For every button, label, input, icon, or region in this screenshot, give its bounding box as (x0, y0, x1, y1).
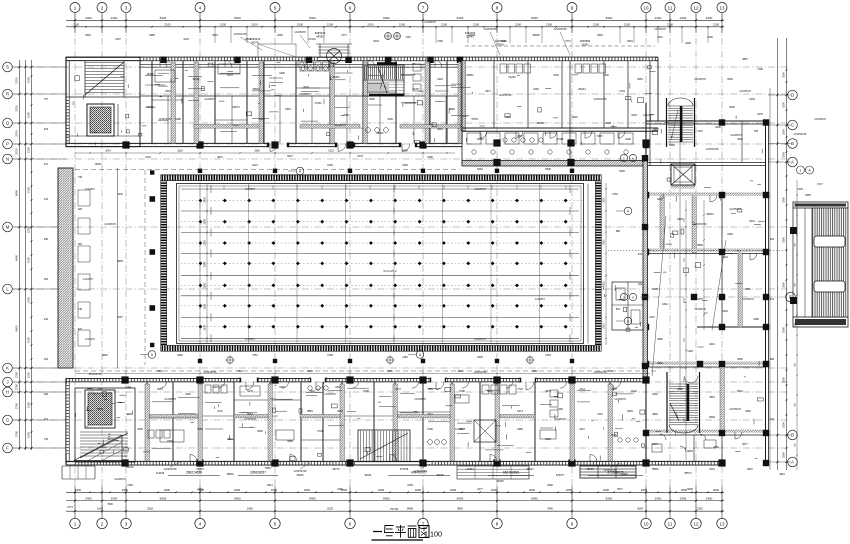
dotted line right wing y250 (608, 249, 788, 251)
svg-text:2700: 2700 (15, 371, 19, 378)
wall hatch x462 (461, 61, 465, 131)
svg-text:5133: 5133 (145, 156, 151, 159)
svg-text:5940: 5940 (532, 370, 538, 373)
svg-text:98776: 98776 (333, 468, 341, 471)
column bottom band north x=423 (419, 376, 426, 383)
wall rooms right top (462, 57, 658, 166)
svg-text:10341: 10341 (581, 43, 589, 47)
wall pool hall east (643, 158, 648, 377)
svg-text:9176: 9176 (247, 390, 253, 393)
svg-text:2400: 2400 (680, 16, 687, 20)
ramp right top bar (793, 202, 848, 208)
svg-text:1234567: 1234567 (85, 337, 96, 341)
svg-text:12345678: 12345678 (114, 477, 126, 481)
svg-text:2500: 2500 (604, 323, 606, 329)
svg-text:99938: 99938 (533, 34, 541, 37)
svg-text:12: 12 (693, 5, 699, 10)
svg-text:9091: 9091 (477, 168, 483, 171)
svg-text:4751: 4751 (252, 354, 258, 357)
svg-text:6038: 6038 (687, 488, 693, 491)
elevator top-left shaft (87, 104, 114, 136)
svg-text:2400: 2400 (706, 16, 713, 20)
svg-text:12345678: 12345678 (244, 417, 256, 421)
svg-text:471: 471 (44, 418, 49, 421)
wall top-left lobby (66, 104, 140, 136)
svg-text:3524: 3524 (212, 34, 218, 37)
svg-text:12345678: 12345678 (654, 27, 666, 31)
svg-text:2400: 2400 (706, 496, 713, 500)
svg-text:12: 12 (693, 521, 699, 526)
dimension line bottom 2 (66, 500, 724, 502)
svg-text:8400: 8400 (160, 16, 167, 20)
svg-text:2400: 2400 (655, 496, 662, 500)
svg-text:3430: 3430 (117, 193, 123, 196)
svg-text:2871: 2871 (485, 90, 491, 93)
svg-text:6998: 6998 (545, 168, 551, 171)
svg-text:C: C (791, 123, 794, 128)
svg-text:75740: 75740 (390, 507, 399, 511)
detail callout (152,354.5) (140, 351, 156, 359)
svg-text:9784: 9784 (553, 74, 559, 77)
column bottom band north x=497 (493, 376, 500, 383)
svg-text:B: B (791, 141, 794, 146)
svg-text:10: 10 (643, 5, 649, 10)
svg-text:5204: 5204 (373, 40, 379, 43)
svg-text:123456789: 123456789 (694, 222, 708, 226)
svg-text:1849593: 1849593 (580, 39, 591, 43)
svg-text:0348: 0348 (547, 484, 553, 487)
axis bubble left N (3, 154, 13, 164)
svg-text:2500: 2500 (204, 197, 207, 203)
svg-text:1500: 1500 (27, 147, 31, 153)
svg-text:8400: 8400 (15, 325, 19, 332)
axis bubble bottom 4 (195, 518, 205, 528)
svg-text:2500: 2500 (204, 261, 207, 267)
svg-text:123456789: 123456789 (294, 469, 308, 473)
column bottom band north x=350 (346, 376, 353, 383)
svg-text:98262: 98262 (707, 213, 715, 216)
svg-text:80184: 80184 (579, 88, 587, 91)
svg-text:3518: 3518 (85, 34, 91, 37)
axis bubble left G (3, 415, 13, 425)
wall hall north east part (462, 161, 643, 167)
svg-text:3300: 3300 (782, 282, 786, 288)
svg-text:8908: 8908 (402, 150, 408, 153)
svg-text:6594: 6594 (727, 78, 733, 81)
column top corridor x=350 (346, 141, 353, 148)
doors bottom band (190, 382, 597, 462)
svg-text:3300: 3300 (782, 197, 786, 203)
axis bubble left R (3, 89, 13, 99)
axis bubble right D (788, 90, 798, 100)
windows top wall (142, 58, 656, 61)
svg-text:54948: 54948 (497, 480, 505, 483)
svg-text:85574: 85574 (685, 472, 693, 475)
axis bubble right C (788, 120, 798, 130)
svg-text:1800: 1800 (529, 488, 536, 492)
gallery edge line west (117, 168, 119, 368)
svg-text:0824: 0824 (245, 38, 251, 41)
svg-text:1500: 1500 (27, 77, 31, 83)
column ref symbols south deck (226, 356, 535, 365)
svg-text:12345678: 12345678 (739, 89, 751, 93)
svg-text:8400: 8400 (606, 496, 613, 500)
grid line axis x=200 (199, 13, 201, 519)
svg-text:7387: 7387 (97, 388, 103, 391)
svg-text:2100: 2100 (593, 23, 600, 27)
svg-text:1234567: 1234567 (535, 297, 546, 301)
svg-text:A: A (632, 156, 634, 160)
svg-text:398214658: 398214658 (186, 471, 202, 475)
svg-text:8122: 8122 (631, 390, 637, 393)
svg-text:1500: 1500 (27, 402, 31, 408)
pool lane end ticks (211, 185, 570, 342)
wall bottom band west (66, 379, 69, 466)
svg-text:11: 11 (668, 5, 673, 10)
axis bubble bottom 10 (641, 518, 651, 528)
columns right wing (643, 119, 769, 466)
svg-text:4846: 4846 (652, 413, 658, 416)
grid line axis y=144 (12, 143, 788, 145)
axis bubble left M (3, 222, 13, 232)
svg-text:22941: 22941 (469, 34, 477, 37)
svg-text:3276: 3276 (303, 86, 309, 89)
column top corridor x=200 (196, 141, 203, 148)
svg-text:3300: 3300 (782, 452, 786, 458)
svg-text:2700: 2700 (15, 105, 19, 112)
svg-text:12345678: 12345678 (694, 307, 706, 311)
svg-text:680: 680 (770, 358, 775, 361)
svg-text:8708: 8708 (363, 390, 369, 393)
column x=571 y=143 (567, 139, 574, 146)
svg-text:8400: 8400 (234, 16, 241, 20)
svg-text:8346: 8346 (437, 128, 443, 131)
axis bubble top 10 (641, 3, 651, 13)
axis bubble bottom 7 (418, 518, 428, 528)
axis bubble bottom 1 (70, 518, 80, 528)
svg-text:1241: 1241 (597, 413, 603, 416)
svg-text:2704: 2704 (619, 90, 625, 93)
svg-text:2100: 2100 (327, 23, 334, 27)
svg-text:339636057: 339636057 (250, 471, 266, 475)
pool gutter right (595, 181, 601, 346)
columns right wing y297 (691, 294, 769, 300)
svg-text:2100: 2100 (473, 23, 480, 27)
column x=646 y=143 (642, 139, 649, 146)
svg-text:2100: 2100 (367, 23, 374, 27)
svg-text:5299: 5299 (557, 408, 563, 411)
svg-text:3218: 3218 (177, 150, 183, 153)
wall corridor north y=145 (66, 143, 462, 146)
leader diagonal right wing 1 (712, 240, 726, 330)
svg-text:9805: 9805 (117, 260, 123, 263)
grid line axis y=382 (12, 381, 788, 383)
svg-text:1: 1 (800, 169, 802, 173)
svg-text:1800: 1800 (491, 488, 498, 492)
svg-text:12345678: 12345678 (334, 123, 346, 127)
svg-text:123456789: 123456789 (164, 467, 178, 471)
svg-text:7743: 7743 (517, 388, 523, 391)
axis bubble top 11 (665, 3, 675, 13)
svg-text:4330: 4330 (722, 310, 728, 313)
column bottom band north x=572 (568, 376, 575, 383)
svg-text:1800: 1800 (234, 488, 241, 492)
svg-text:403: 403 (44, 128, 49, 131)
svg-text:2100: 2100 (297, 23, 304, 27)
exterior rails bottom (580, 466, 636, 478)
axis bubble top 4 (195, 3, 205, 13)
svg-text:123456789: 123456789 (554, 27, 568, 31)
dimension line top outer (66, 19, 724, 21)
svg-text:8400: 8400 (457, 496, 464, 500)
grid line axis x=572 (571, 13, 573, 519)
svg-text:12345678: 12345678 (729, 407, 741, 411)
svg-text:2994: 2994 (652, 443, 658, 446)
dimension line right inner (777, 38, 779, 470)
svg-text:980: 980 (616, 230, 621, 233)
svg-text:123456789: 123456789 (234, 32, 248, 36)
axis bubble bottom 2 (97, 518, 107, 528)
svg-text:2500: 2500 (204, 282, 207, 288)
axis bubble top 6 (345, 3, 355, 13)
svg-text:12345678: 12345678 (324, 392, 336, 396)
tiny text labels (83, 20, 826, 481)
svg-text:1234567: 1234567 (245, 187, 256, 191)
svg-text:4431: 4431 (709, 468, 715, 471)
svg-text:1234567: 1234567 (643, 113, 654, 117)
axis bubble top 2 (97, 3, 107, 13)
svg-text:12345678: 12345678 (164, 397, 176, 401)
deck dashed line north (75, 169, 460, 171)
svg-text:8053: 8053 (247, 413, 253, 416)
deck dashed vertical west (144, 170, 146, 365)
axis bubble left H (3, 387, 13, 397)
svg-text:2322: 2322 (722, 256, 728, 259)
svg-text:4493: 4493 (653, 128, 659, 131)
leader lines (170, 32, 620, 469)
svg-text:872: 872 (78, 328, 83, 331)
svg-text:1800: 1800 (415, 488, 422, 492)
svg-text:6556: 6556 (737, 358, 743, 361)
svg-text:1800: 1800 (450, 488, 457, 492)
svg-text:6717: 6717 (817, 183, 823, 186)
ramp right side lines (793, 208, 805, 317)
pool outer rect (161, 175, 601, 351)
svg-text:2100: 2100 (667, 23, 674, 27)
svg-text:3863: 3863 (457, 507, 463, 511)
svg-text:9310: 9310 (165, 90, 171, 93)
svg-text:1043: 1043 (105, 150, 111, 153)
svg-text:6342: 6342 (662, 303, 668, 306)
detail callout (420,354.5) (408, 351, 424, 359)
svg-text:2366: 2366 (745, 410, 751, 413)
axis bubble top 9 (567, 3, 577, 13)
dimension line top inner (66, 26, 724, 28)
svg-text:8820: 8820 (102, 354, 108, 357)
svg-text:2700: 2700 (15, 430, 19, 437)
svg-text:S: S (6, 65, 9, 70)
column bottom band north x=200 (196, 376, 203, 383)
axis bubble right A (788, 157, 798, 167)
svg-text:3623: 3623 (107, 438, 113, 441)
svg-text:27109: 27109 (309, 38, 317, 41)
svg-text:78856: 78856 (652, 468, 660, 471)
svg-text:3218: 3218 (147, 507, 153, 511)
door thresholds (239, 143, 537, 383)
wall bottom band south (66, 462, 722, 466)
svg-text:1500: 1500 (27, 112, 31, 118)
dimension ticks right (768, 69, 791, 463)
svg-text:8400: 8400 (309, 16, 316, 20)
svg-text:12345678: 12345678 (474, 187, 486, 191)
doors bottom extra (160, 382, 716, 452)
svg-text:2500: 2500 (204, 218, 207, 224)
svg-text:2500: 2500 (604, 239, 606, 245)
stair right wing bottom (667, 372, 700, 433)
grid line axis x=102 (101, 13, 103, 519)
wall top inner gallery (140, 64, 462, 67)
svg-text:8849: 8849 (449, 108, 455, 111)
svg-text:447: 447 (44, 163, 49, 166)
column bottom band south x=646 (642, 459, 649, 466)
svg-text:4777: 4777 (341, 34, 347, 37)
svg-text:3863: 3863 (157, 370, 163, 373)
dimension ticks bottom (74, 486, 723, 518)
axis bubble bottom 12 (691, 518, 701, 528)
svg-text:4873: 4873 (545, 390, 551, 393)
svg-text:8760: 8760 (167, 440, 173, 443)
axis bubble right y297 (786, 292, 796, 302)
svg-text:2400: 2400 (655, 16, 662, 20)
svg-text:2100: 2100 (713, 23, 720, 27)
svg-text:0278: 0278 (757, 113, 763, 116)
svg-text:2500: 2500 (604, 197, 606, 203)
svg-text:8400: 8400 (309, 496, 316, 500)
axis bubble bottom 8 (492, 518, 502, 528)
svg-text:R: R (6, 92, 9, 97)
grid line axis x=722 (721, 13, 723, 519)
svg-text:1:100: 1:100 (424, 530, 442, 539)
svg-text:026: 026 (78, 208, 83, 211)
svg-text:404499727: 404499727 (411, 471, 427, 475)
dimension ticks left (13, 66, 66, 449)
svg-text:2700: 2700 (15, 148, 19, 155)
svg-text:123456789: 123456789 (594, 97, 608, 101)
svg-text:1800: 1800 (164, 488, 171, 492)
svg-text:5667: 5667 (597, 135, 603, 138)
svg-text:3271: 3271 (427, 413, 433, 416)
svg-text:7429: 7429 (797, 188, 803, 191)
pool vertical marks (200, 184, 588, 344)
svg-text:1960: 1960 (247, 507, 253, 511)
wall right wing west (645, 103, 647, 465)
svg-text:7401: 7401 (697, 130, 703, 133)
svg-text:D: D (791, 93, 794, 98)
svg-text:1500: 1500 (27, 432, 31, 438)
detail callout (628,321) (616, 317, 632, 325)
dimension numbers top (73, 16, 720, 27)
svg-text:678377: 678377 (556, 474, 565, 477)
svg-text:9049: 9049 (627, 410, 633, 413)
svg-text:786: 786 (754, 130, 759, 133)
rooms SE hall corner (612, 282, 643, 330)
svg-text:2805: 2805 (677, 218, 683, 221)
hatched walls bottom band (145, 384, 612, 461)
svg-text:6773: 6773 (67, 506, 73, 509)
axis bubble top 13 (717, 3, 727, 13)
svg-text:7816: 7816 (607, 370, 613, 373)
svg-text:1800: 1800 (378, 488, 385, 492)
svg-text:2654: 2654 (307, 370, 313, 373)
svg-text:1093: 1093 (407, 484, 413, 487)
svg-text:674: 674 (770, 298, 775, 301)
svg-text:4332: 4332 (185, 393, 191, 396)
svg-text:3105: 3105 (605, 122, 611, 125)
svg-text:8400: 8400 (15, 189, 19, 196)
wall right wing north (646, 121, 769, 124)
columns pool deck (198, 169, 574, 364)
column bottom band north x=646 (642, 376, 649, 383)
canopy dashed top (258, 44, 296, 57)
axis bubble bottom 11 (665, 518, 675, 528)
hatched walls top band (171, 62, 462, 143)
grid line axis x=497 (496, 13, 498, 519)
svg-text:25534: 25534 (253, 88, 261, 91)
svg-text:875588675: 875588675 (608, 471, 624, 475)
svg-text:50.0x25.0: 50.0x25.0 (383, 269, 397, 273)
svg-text:1500: 1500 (27, 257, 31, 263)
svg-text:0450: 0450 (727, 233, 733, 236)
clutter marks (73, 62, 765, 461)
svg-text:3056413: 3056413 (250, 37, 261, 41)
wall left exterior top band (66, 57, 69, 146)
dimension chain corridor (75, 150, 455, 154)
wall top exterior (66, 57, 658, 60)
dimension chain far right (795, 180, 798, 470)
svg-text:123456789: 123456789 (499, 93, 513, 97)
svg-text:13: 13 (719, 521, 725, 526)
grid line axis y=368 (12, 367, 788, 369)
svg-text:M: M (6, 225, 10, 230)
svg-text:7190: 7190 (757, 68, 763, 71)
svg-text:5242: 5242 (737, 138, 743, 141)
axis bubble bottom 13 (717, 518, 727, 528)
svg-text:18506: 18506 (227, 473, 235, 476)
shower stalls row (467, 133, 633, 154)
deck dashed line south (75, 370, 658, 372)
entrance vestibule top (316, 44, 352, 57)
svg-text:12345678: 12345678 (474, 337, 486, 341)
svg-text:4170: 4170 (217, 410, 223, 413)
svg-text:3734: 3734 (317, 430, 323, 433)
dimension line right aux (769, 88, 771, 470)
svg-text:0037: 0037 (213, 386, 219, 389)
axis bubble bottom 5 (270, 518, 280, 528)
axis bubble top 5 (270, 3, 280, 13)
svg-text:B: B (791, 433, 794, 438)
stair top-left treads (66, 61, 140, 97)
svg-text:K: K (6, 366, 9, 371)
axis bubble top 3 (121, 3, 131, 13)
svg-text:182: 182 (638, 283, 643, 286)
axis bubble left J (3, 377, 13, 387)
svg-text:10: 10 (643, 521, 649, 526)
svg-text:2351: 2351 (387, 370, 393, 373)
walls right wing partitions (646, 121, 766, 462)
axis bubble right A (788, 457, 798, 467)
svg-text:841: 841 (616, 308, 621, 311)
svg-text:48963: 48963 (377, 132, 385, 135)
